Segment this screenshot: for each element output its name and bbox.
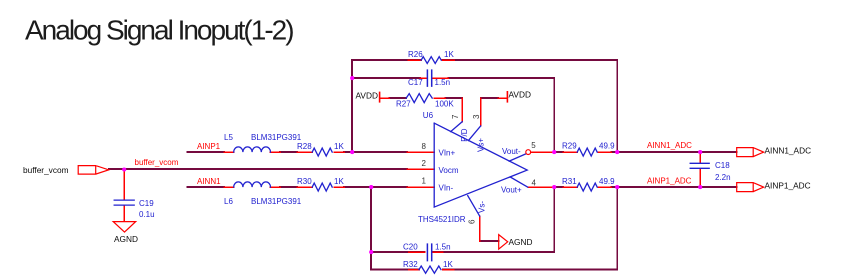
resistor R28 body (312, 148, 332, 156)
svg-text:AINP1: AINP1 (197, 142, 221, 151)
red lead C20 (409, 251, 443, 253)
svg-text:R26: R26 (408, 50, 423, 59)
resistor R31 body (577, 183, 597, 191)
capacitor C19 plates (114, 200, 134, 205)
junction C20 to Vout+ (552, 185, 556, 189)
junction R32 to Vout+ net (615, 185, 619, 189)
svg-text:Vocm: Vocm (439, 166, 459, 175)
resistor R27 body (406, 94, 432, 103)
wire AINP1 net (187, 151, 407, 153)
svg-text:3: 3 (472, 114, 481, 119)
connector AINN1_ADC (737, 148, 764, 157)
wire C17 vertical right (553, 78, 555, 152)
ground AGND right of pin6 (499, 235, 508, 250)
op-amp pin4 crossover line (510, 177, 528, 187)
wire C20 vertical right (553, 187, 555, 252)
wire pin3 to AVDD right (481, 97, 499, 99)
svg-text:R30: R30 (297, 177, 312, 186)
capacitor C20 plates (427, 244, 431, 261)
svg-text:49.9: 49.9 (599, 177, 615, 186)
junction C18 bottom (698, 185, 702, 189)
wire top feedback vertical right (616, 60, 618, 152)
red lead C18 (699, 152, 701, 187)
svg-text:BLM31PG391: BLM31PG391 (251, 133, 302, 142)
svg-text:AVDD: AVDD (356, 91, 378, 101)
resistor R32 body (419, 266, 441, 273)
red lead R27 (380, 97, 445, 99)
wire AVDD left to R27 (389, 97, 406, 99)
svg-text:2: 2 (422, 159, 427, 168)
svg-text:6: 6 (468, 219, 477, 224)
connector AINP1_ADC (737, 183, 764, 192)
capacitor C18 plates (690, 163, 709, 168)
red wire pin3 vertical (481, 98, 508, 126)
svg-text:AINN1_ADC: AINN1_ADC (647, 141, 692, 150)
svg-text:Vout-: Vout- (502, 147, 521, 156)
red lead C19 (123, 169, 125, 222)
wire C17 row (352, 77, 554, 79)
red lead R32 (409, 269, 454, 271)
svg-text:AINN1_ADC: AINN1_ADC (765, 146, 812, 156)
red lead R31 (563, 186, 611, 188)
svg-text:7: 7 (451, 114, 460, 119)
pin5 bubble (526, 150, 531, 155)
red lead R28 (297, 151, 344, 153)
power AVDD right bar (506, 92, 508, 102)
wire buffer_vcom to Vocm (109, 168, 408, 170)
red wire pin7 vertical (461, 98, 463, 122)
wire pin6 to AGND (480, 240, 499, 242)
svg-text:P/D: P/D (460, 128, 469, 142)
svg-text:C20: C20 (403, 243, 418, 252)
red wire pin6 vertical (479, 216, 481, 241)
op-amp pin3 lead-in (468, 126, 480, 141)
capacitor C17 plates (427, 70, 431, 86)
wire Vout+ to output (554, 186, 737, 188)
red pin stub pin8 (407, 151, 434, 153)
op-amp U6 triangle (434, 123, 527, 207)
svg-text:L6: L6 (224, 197, 233, 206)
junction C17 to Vout- (552, 150, 556, 154)
svg-text:8: 8 (422, 142, 427, 151)
svg-text:BLM31PG391: BLM31PG391 (251, 197, 302, 206)
wire R26 row (352, 59, 617, 61)
wire AINN1 net (187, 186, 407, 188)
svg-text:2.2n: 2.2n (715, 173, 731, 182)
svg-text:49.9: 49.9 (599, 142, 615, 151)
wire bottom feedback vertical right (616, 187, 618, 270)
wire bottom feedback vertical left (370, 187, 372, 270)
svg-text:AVDD: AVDD (509, 90, 531, 100)
svg-text:C18: C18 (715, 161, 730, 170)
svg-text:Vout+: Vout+ (501, 185, 522, 194)
svg-text:4: 4 (532, 178, 537, 187)
junction C18 top (698, 150, 702, 154)
svg-text:5: 5 (531, 141, 536, 150)
svg-text:1K: 1K (334, 142, 344, 151)
power AVDD left bar (379, 92, 381, 101)
svg-text:VIn+: VIn+ (439, 149, 456, 158)
svg-text:R27: R27 (396, 100, 411, 109)
svg-text:Vs-: Vs- (478, 201, 487, 213)
junction buffer_vcom (122, 167, 126, 171)
red lead R29 (563, 151, 611, 153)
svg-text:1K: 1K (444, 50, 454, 59)
svg-text:AGND: AGND (509, 237, 533, 247)
red lead C17 (420, 77, 448, 79)
red lead L5 (224, 151, 280, 153)
junction VIn- node (369, 185, 373, 189)
svg-text:L5: L5 (224, 133, 233, 142)
junction C17 tap (350, 76, 354, 80)
svg-text:C19: C19 (139, 199, 154, 208)
inductor L5 (234, 147, 271, 152)
red pin stub pin5 (531, 151, 554, 153)
wire R32 row (371, 269, 617, 271)
svg-text:AGND: AGND (114, 234, 138, 244)
wire Vout- to output (554, 151, 737, 153)
svg-text:0.1u: 0.1u (139, 210, 155, 219)
svg-text:AINP1_ADC: AINP1_ADC (647, 177, 692, 186)
resistor R30 body (312, 183, 332, 191)
red lead R30 (297, 186, 344, 188)
svg-text:Analog Signal Inoput(1-2): Analog Signal Inoput(1-2) (25, 15, 293, 46)
wire R27 to pin7 (445, 97, 462, 99)
op-amp pin6 lead-in (468, 196, 480, 217)
svg-text:AINN1: AINN1 (197, 177, 221, 186)
red lead R26 (408, 59, 454, 61)
inductor L6 (234, 182, 271, 187)
red pin stub pin1 (407, 186, 434, 188)
red pin stub pin2 (407, 168, 434, 170)
resistor R26 body (421, 57, 441, 64)
red lead L6 (224, 186, 280, 188)
junction C20 tap (369, 250, 373, 254)
op-amp pin7 lead-in (451, 122, 463, 132)
wire top feedback vertical left (351, 60, 353, 152)
red pin stub pin4 (528, 186, 554, 188)
wire C20 row (371, 251, 554, 253)
svg-text:R28: R28 (297, 142, 312, 151)
svg-text:R32: R32 (403, 260, 418, 269)
svg-text:Vs+: Vs+ (477, 138, 486, 152)
junction VIn+ node (350, 150, 354, 154)
svg-text:1: 1 (422, 176, 427, 185)
svg-text:1.5n: 1.5n (435, 78, 451, 87)
svg-text:buffer_vcom: buffer_vcom (135, 158, 179, 167)
svg-text:U6: U6 (423, 111, 434, 120)
svg-text:VIn-: VIn- (439, 184, 454, 193)
svg-text:1.5n: 1.5n (435, 243, 451, 252)
svg-text:THS4521IDR: THS4521IDR (418, 215, 466, 224)
svg-text:100K: 100K (435, 100, 454, 109)
svg-text:AINP1_ADC: AINP1_ADC (765, 181, 811, 191)
svg-text:1K: 1K (334, 177, 344, 186)
svg-text:C17: C17 (408, 78, 423, 87)
op-amp pin5 crossover line (509, 154, 526, 161)
svg-text:R31: R31 (562, 177, 577, 186)
junction R26 to Vout- net (615, 150, 619, 154)
resistor R29 body (577, 148, 597, 156)
svg-text:1K: 1K (443, 260, 453, 269)
connector buffer_vcom (78, 166, 109, 175)
svg-text:buffer_vcom: buffer_vcom (23, 165, 69, 175)
svg-text:R29: R29 (562, 142, 577, 151)
ground AGND under C19 (113, 222, 136, 233)
